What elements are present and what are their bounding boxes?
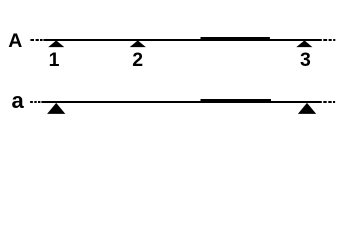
svg-text:2: 2 [132,49,143,71]
svg-text:3: 3 [300,49,311,71]
svg-text:A: A [8,30,22,52]
svg-text:a: a [12,88,25,113]
svg-text:1: 1 [49,49,60,71]
